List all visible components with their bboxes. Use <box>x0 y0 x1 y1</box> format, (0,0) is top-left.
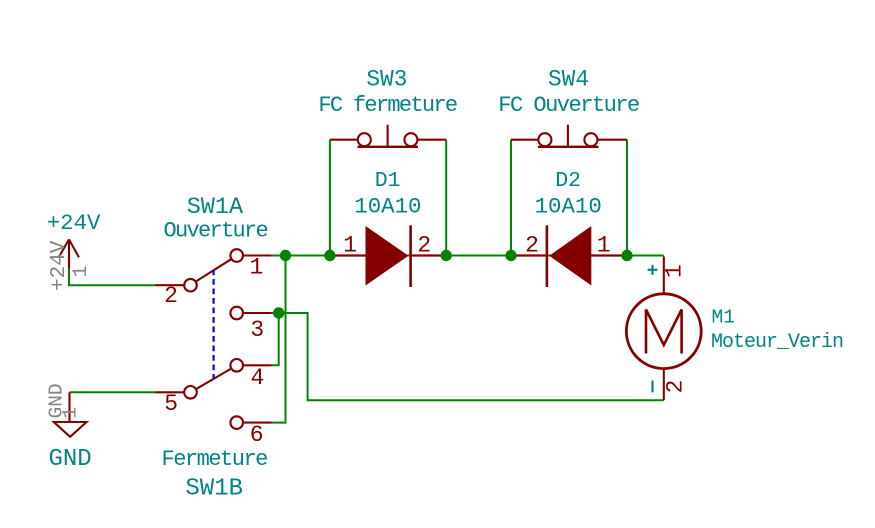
svg-text:2: 2 <box>417 232 431 258</box>
svg-text:10A10: 10A10 <box>535 194 602 220</box>
svg-text:SW3: SW3 <box>366 67 407 93</box>
svg-text:SW4: SW4 <box>548 67 589 93</box>
svg-text:1: 1 <box>662 264 688 278</box>
svg-text:1: 1 <box>60 407 82 419</box>
svg-text:SW1A: SW1A <box>187 194 244 221</box>
svg-text:Fermeture: Fermeture <box>162 447 268 472</box>
svg-text:2: 2 <box>662 380 688 394</box>
svg-text:GND: GND <box>48 446 91 473</box>
svg-text:3: 3 <box>250 317 264 343</box>
svg-text:4: 4 <box>250 365 264 391</box>
svg-text:1: 1 <box>70 265 93 277</box>
svg-text:M1: M1 <box>712 307 735 329</box>
svg-text:6: 6 <box>250 422 264 448</box>
svg-text:1: 1 <box>597 232 611 258</box>
svg-text:Moteur_Verin: Moteur_Verin <box>711 331 843 354</box>
svg-text:1: 1 <box>249 255 263 281</box>
svg-text:2: 2 <box>525 232 539 258</box>
svg-text:D2: D2 <box>555 169 581 193</box>
svg-text:FC fermeture: FC fermeture <box>318 93 457 118</box>
svg-text:Ouverture: Ouverture <box>164 219 268 244</box>
svg-text:1: 1 <box>343 232 357 258</box>
svg-text:SW1B: SW1B <box>185 476 243 503</box>
svg-text:2: 2 <box>164 283 178 309</box>
svg-text:10A10: 10A10 <box>354 194 421 220</box>
svg-text:+24V: +24V <box>47 210 101 236</box>
svg-text:5: 5 <box>164 391 178 417</box>
svg-text:FC Ouverture: FC Ouverture <box>498 93 639 118</box>
svg-text:+24V: +24V <box>48 240 71 291</box>
svg-text:D1: D1 <box>375 169 401 193</box>
